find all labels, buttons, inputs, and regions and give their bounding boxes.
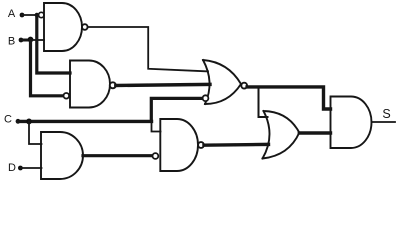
gate NAND1 body bbox=[44, 3, 82, 51]
gate AND3 body bbox=[41, 132, 83, 179]
wire A branch down to NAND2 top input bbox=[37, 15, 70, 73]
node B junction dot bbox=[28, 37, 34, 43]
node C junction dot bbox=[26, 119, 32, 125]
gate NAND2 output bubble bbox=[110, 82, 116, 88]
wire NOR4 branch down to OR6 top input bbox=[259, 87, 268, 117]
gate NAND5 body bbox=[160, 119, 198, 171]
svg-text:B: B bbox=[8, 36, 15, 48]
wire AND7 output S bbox=[372, 121, 396, 123]
wire C horizontal bus bbox=[18, 120, 152, 123]
gate OR6 body bbox=[263, 111, 300, 159]
gate NAND5 output bubble bbox=[198, 142, 204, 148]
node B terminal dot bbox=[19, 38, 24, 43]
node A junction dot bbox=[35, 13, 39, 17]
gate NOR4 output bubble bbox=[241, 83, 247, 89]
wire A to NAND1 input bubble bbox=[22, 14, 39, 16]
node A terminal dot bbox=[20, 13, 25, 18]
wire NOR4 output bus to AND7 top input bbox=[247, 87, 330, 109]
wire C branch up to NOR bottom input bubble bbox=[151, 98, 202, 121]
gate AND7 body bbox=[331, 97, 372, 149]
node D terminal dot bbox=[18, 166, 23, 171]
svg-text:A: A bbox=[8, 8, 16, 20]
wire D to AND3 bottom input bbox=[20, 167, 41, 169]
wire NAND5 output to OR6 bottom input bbox=[204, 143, 269, 147]
wire C branch down to NAND5 top input bbox=[152, 121, 161, 131]
gate NAND1 output bubble bbox=[82, 24, 88, 30]
wire C branch down to AND3 top input bbox=[29, 121, 42, 144]
wire B to NAND1 bottom input bbox=[31, 39, 45, 41]
svg-text:S: S bbox=[382, 107, 390, 121]
wire B to junction bbox=[21, 39, 31, 42]
wire NAND1 output to NOR top input bbox=[88, 27, 208, 71]
node C terminal dot bbox=[16, 119, 21, 124]
wire NAND2 output to NOR middle input bbox=[116, 84, 210, 85]
gate NAND2 body bbox=[70, 61, 110, 108]
gate NOR4 bottom input bubble bbox=[203, 95, 209, 101]
gate NOR4 body bbox=[203, 60, 241, 104]
svg-text:C: C bbox=[4, 114, 12, 126]
wire OR6 output to AND7 bottom input bbox=[299, 131, 330, 134]
NAND1 input bubble (inverted A input) bbox=[39, 12, 44, 17]
wire AND3 output to NAND5 bottom input bubble bbox=[83, 154, 153, 157]
wire B branch down to NAND2 bottom input bubble bbox=[31, 40, 64, 96]
svg-text:D: D bbox=[8, 162, 16, 174]
gate NAND5 bottom input bubble bbox=[153, 153, 159, 159]
gate NAND2 bottom input bubble bbox=[64, 93, 70, 99]
